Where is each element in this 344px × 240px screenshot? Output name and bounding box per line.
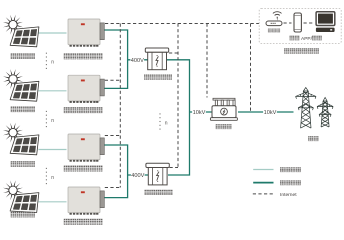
svg-text:n: n	[51, 60, 54, 66]
wire internet branch inverter 4	[105, 187, 121, 189]
wire substation 1 output down	[167, 60, 190, 112]
legend Internet dashed line	[253, 193, 274, 195]
router icon	[266, 12, 282, 26]
box substation 2 箱式变电站 icon	[146, 163, 169, 185]
power grid towers 电网 icon	[296, 88, 334, 129]
label PV array 4 光伏阵列	[11, 212, 35, 218]
label 400V bottom	[131, 172, 145, 179]
svg-text:APP/: APP/	[301, 36, 313, 42]
label grid 电网	[308, 136, 318, 141]
node n mark rows 2-3	[46, 111, 54, 127]
legend DC cable line	[253, 169, 273, 171]
wire internet trunk horizontal	[105, 23, 259, 25]
label PV array 3 光伏阵列	[11, 161, 35, 167]
box substation 1 箱式变电站 icon	[145, 48, 168, 70]
legend AC cable line	[253, 182, 273, 184]
wire 400V branch to substation 1	[128, 59, 148, 61]
wire 10kV line to switch station	[190, 111, 213, 113]
legend DC cable label 直流电缆	[280, 167, 301, 172]
phone icon	[294, 13, 301, 32]
svg-text:10kV: 10kV	[264, 110, 277, 116]
wire DC cable PV row 2 to inverter	[39, 90, 67, 92]
wire 10kV line switch station to grid	[238, 111, 294, 113]
label box substation 1	[144, 75, 172, 80]
wire dash phone-computer	[304, 22, 313, 24]
wire internet stub substation 2	[170, 167, 179, 169]
legend AC cable label 交流电缆	[280, 180, 301, 185]
PV array 4 icon	[3, 180, 39, 212]
wire internet branch inverter 2	[105, 79, 121, 81]
wire AC 400V bus group 1	[104, 30, 127, 88]
label switch station 开关站	[216, 124, 232, 129]
label 10kV right	[263, 109, 277, 116]
wire 400V branch to substation 2	[128, 174, 148, 176]
switch station 开关站 icon	[210, 98, 237, 120]
label internet 互联网	[268, 29, 280, 33]
svg-text:n: n	[165, 120, 168, 126]
label 监控管理平台	[284, 48, 319, 53]
svg-text:10kV: 10kV	[193, 110, 206, 116]
computer icon	[316, 12, 335, 32]
wire DC cable PV row 3 to inverter	[39, 149, 67, 151]
label 10kV left	[192, 109, 206, 116]
label PV array 2 光伏阵列	[11, 107, 35, 113]
wire DC cable PV row 4 to inverter	[39, 201, 67, 203]
svg-text:n: n	[51, 175, 54, 181]
svg-text:400V: 400V	[131, 58, 144, 64]
string inverter 4 icon	[68, 187, 104, 215]
string inverter 2 icon	[68, 75, 104, 103]
monitoring platform dashed box	[259, 9, 341, 44]
svg-text:Internet: Internet	[280, 192, 297, 198]
string inverter 1 icon	[68, 19, 104, 47]
wire internet vertical switch station	[206, 24, 208, 98]
string inverter 3 icon	[68, 134, 104, 162]
wire dash router-phone	[284, 22, 292, 24]
wire internet vertical substations	[177, 24, 179, 168]
label string inverter 3 组串式逆变器	[64, 166, 103, 172]
label 监控 APP/电脑	[290, 36, 322, 42]
PV array 1 icon	[3, 15, 39, 47]
wire internet vertical to 10kV line	[250, 24, 252, 112]
label PV array 1 光伏阵列	[11, 53, 35, 59]
wire internet vertical trunk inverters	[119, 24, 121, 188]
label 400V top	[130, 57, 144, 64]
node n mark substations	[159, 113, 167, 129]
wire AC 400V bus group 2	[104, 145, 127, 198]
wire DC cable PV row 1 to inverter	[39, 32, 67, 34]
svg-text:n: n	[51, 118, 54, 124]
label box substation 2	[145, 190, 173, 195]
PV array 2 icon	[3, 69, 39, 101]
node n mark rows 1-2	[46, 53, 54, 69]
label string inverter 1 组串式逆变器	[64, 53, 103, 59]
wire internet stub substation 1	[169, 52, 178, 54]
PV array 3 icon	[3, 123, 39, 155]
node n mark rows 3-4	[46, 168, 54, 184]
svg-text:400V: 400V	[131, 173, 144, 179]
wire substation 2 output up	[168, 112, 190, 175]
label string inverter 4 组串式逆变器	[64, 219, 103, 225]
wire internet branch inverter 3	[105, 135, 121, 137]
label string inverter 2 组串式逆变器	[64, 107, 103, 113]
